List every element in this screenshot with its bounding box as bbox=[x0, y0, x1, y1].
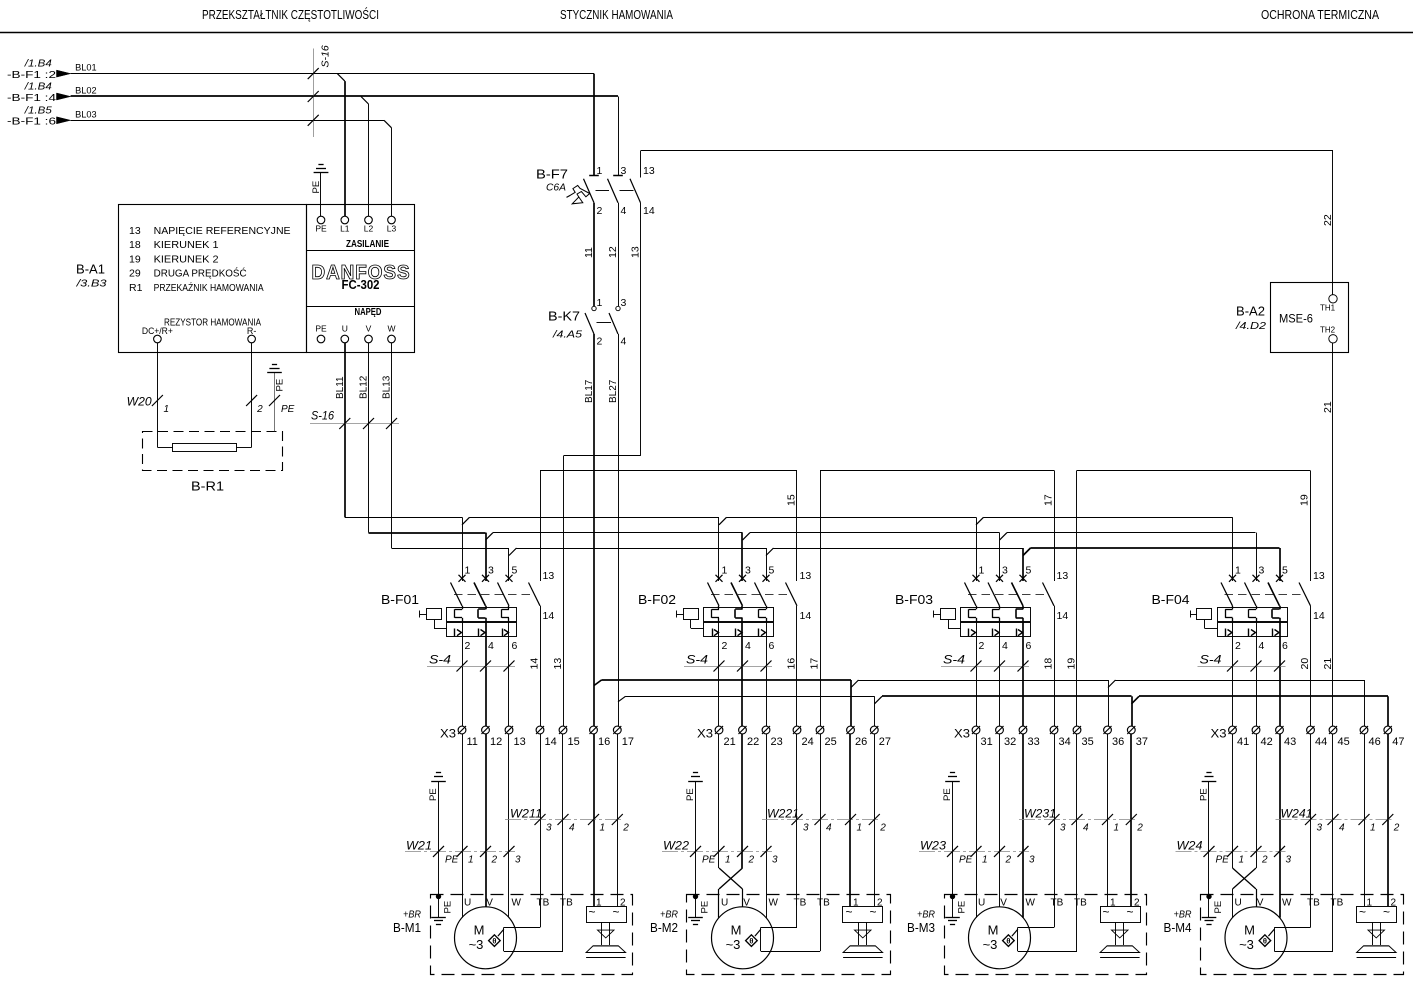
svg-text:OCHRONA TERMICZNA: OCHRONA TERMICZNA bbox=[1261, 7, 1379, 22]
svg-text:TB: TB bbox=[1307, 898, 1320, 909]
svg-text:~: ~ bbox=[845, 905, 852, 919]
svg-text:PE: PE bbox=[1213, 901, 1224, 914]
svg-text:15: 15 bbox=[568, 736, 580, 748]
svg-text:B-F03: B-F03 bbox=[895, 592, 933, 607]
svg-text:25: 25 bbox=[825, 736, 837, 748]
svg-text:TB: TB bbox=[1331, 898, 1344, 909]
svg-text:DC+/R+: DC+/R+ bbox=[142, 326, 173, 336]
svg-text:W221: W221 bbox=[767, 809, 799, 821]
svg-text:14: 14 bbox=[543, 610, 555, 622]
svg-text:41: 41 bbox=[1237, 736, 1249, 748]
svg-text:B-M1: B-M1 bbox=[393, 920, 421, 935]
svg-text:BL02: BL02 bbox=[75, 86, 97, 96]
svg-text:3: 3 bbox=[546, 823, 552, 834]
svg-text:TB: TB bbox=[560, 898, 573, 909]
svg-text:TB: TB bbox=[817, 898, 830, 909]
svg-text:θ: θ bbox=[1263, 937, 1267, 946]
svg-text:2: 2 bbox=[256, 404, 263, 415]
svg-text:23: 23 bbox=[771, 736, 783, 748]
svg-text:BL12: BL12 bbox=[359, 375, 370, 399]
svg-text:5: 5 bbox=[769, 565, 775, 577]
svg-text:17: 17 bbox=[1043, 494, 1055, 506]
svg-text:19: 19 bbox=[1299, 494, 1311, 506]
svg-text:~: ~ bbox=[1383, 905, 1390, 919]
svg-text:12: 12 bbox=[607, 246, 619, 258]
svg-text:1: 1 bbox=[857, 823, 863, 834]
svg-text:2: 2 bbox=[722, 640, 728, 652]
svg-text:U: U bbox=[342, 324, 348, 334]
svg-text:S-16: S-16 bbox=[320, 45, 332, 67]
svg-text:S-4: S-4 bbox=[1200, 655, 1222, 667]
svg-text:26: 26 bbox=[855, 736, 867, 748]
svg-text:~3: ~3 bbox=[983, 937, 998, 952]
svg-text:2: 2 bbox=[879, 823, 886, 834]
svg-text:C6A: C6A bbox=[546, 182, 566, 194]
svg-text:3: 3 bbox=[621, 165, 627, 177]
svg-text:1: 1 bbox=[1114, 823, 1120, 834]
svg-text:14: 14 bbox=[529, 658, 541, 670]
svg-text:PE: PE bbox=[942, 788, 953, 801]
svg-text:3: 3 bbox=[803, 823, 809, 834]
svg-text:ZASILANIE: ZASILANIE bbox=[346, 239, 389, 250]
svg-text:/4.A5: /4.A5 bbox=[552, 329, 582, 341]
svg-text:BL03: BL03 bbox=[75, 109, 97, 119]
svg-text:2: 2 bbox=[1136, 823, 1143, 834]
svg-text:4: 4 bbox=[621, 205, 627, 217]
svg-text:/1.B4: /1.B4 bbox=[24, 58, 52, 70]
svg-text:B-M2: B-M2 bbox=[650, 920, 678, 935]
svg-text:B-M4: B-M4 bbox=[1164, 920, 1192, 935]
svg-text:34: 34 bbox=[1059, 736, 1071, 748]
svg-text:W: W bbox=[512, 898, 522, 909]
svg-text:θ: θ bbox=[749, 937, 753, 946]
svg-text:BL27: BL27 bbox=[608, 379, 619, 403]
svg-text:1: 1 bbox=[1370, 823, 1376, 834]
svg-text:PE: PE bbox=[311, 181, 322, 194]
svg-text:3: 3 bbox=[1029, 855, 1035, 866]
svg-text:+BR: +BR bbox=[660, 909, 678, 921]
svg-text:4: 4 bbox=[1083, 823, 1089, 834]
svg-text:PE: PE bbox=[315, 224, 327, 234]
svg-text:1: 1 bbox=[468, 855, 474, 866]
svg-text:~: ~ bbox=[612, 905, 619, 919]
svg-text:4: 4 bbox=[621, 336, 627, 348]
svg-text:W21: W21 bbox=[406, 841, 432, 853]
svg-text:11: 11 bbox=[583, 247, 595, 258]
svg-text:PE: PE bbox=[957, 901, 968, 914]
svg-text:13: 13 bbox=[514, 736, 526, 748]
svg-text:+BR: +BR bbox=[917, 909, 935, 921]
svg-text:PE: PE bbox=[700, 901, 711, 914]
svg-text:42: 42 bbox=[1261, 736, 1273, 748]
svg-text:21: 21 bbox=[724, 736, 736, 748]
svg-text:V: V bbox=[366, 324, 372, 334]
svg-text:U: U bbox=[464, 898, 471, 909]
svg-text:21: 21 bbox=[1322, 658, 1334, 670]
svg-text:TB: TB bbox=[1051, 898, 1064, 909]
svg-text:U: U bbox=[978, 898, 985, 909]
svg-text:S-4: S-4 bbox=[686, 655, 708, 667]
svg-text:2: 2 bbox=[979, 640, 985, 652]
svg-text:/3.B3: /3.B3 bbox=[75, 277, 106, 289]
svg-text:PE: PE bbox=[281, 404, 295, 415]
svg-text:13: 13 bbox=[800, 570, 812, 582]
svg-text:14: 14 bbox=[643, 205, 655, 217]
svg-text:BL01: BL01 bbox=[75, 63, 97, 73]
svg-text:~: ~ bbox=[1102, 905, 1109, 919]
svg-text:29: 29 bbox=[129, 268, 141, 280]
svg-text:1: 1 bbox=[600, 823, 606, 834]
svg-text:W20: W20 bbox=[127, 397, 153, 409]
svg-text:6: 6 bbox=[1282, 640, 1288, 652]
svg-text:B-A1: B-A1 bbox=[76, 262, 105, 277]
svg-text:1: 1 bbox=[597, 165, 603, 177]
svg-text:TB: TB bbox=[794, 898, 807, 909]
svg-text:L3: L3 bbox=[387, 224, 397, 234]
svg-text:24: 24 bbox=[802, 736, 814, 748]
svg-text:B-F04: B-F04 bbox=[1152, 592, 1190, 607]
svg-text:W211: W211 bbox=[510, 809, 542, 821]
svg-text:19: 19 bbox=[1066, 658, 1078, 670]
svg-text:36: 36 bbox=[1112, 736, 1124, 748]
svg-text:20: 20 bbox=[1299, 658, 1311, 670]
svg-text:PE: PE bbox=[1198, 788, 1209, 801]
svg-text:22: 22 bbox=[747, 736, 759, 748]
svg-text:/1.B5: /1.B5 bbox=[24, 104, 52, 116]
svg-text:θ: θ bbox=[492, 937, 496, 946]
svg-text:~: ~ bbox=[588, 905, 595, 919]
svg-text:X3: X3 bbox=[440, 729, 456, 741]
svg-text:2: 2 bbox=[622, 823, 629, 834]
svg-text:47: 47 bbox=[1392, 736, 1404, 748]
svg-text:W: W bbox=[387, 324, 395, 334]
svg-text:-B-F1 :2: -B-F1 :2 bbox=[7, 70, 57, 81]
svg-text:B-F7: B-F7 bbox=[536, 167, 568, 182]
svg-text:32: 32 bbox=[1004, 736, 1016, 748]
svg-text:W: W bbox=[1282, 898, 1292, 909]
svg-text:16: 16 bbox=[598, 736, 610, 748]
svg-text:3: 3 bbox=[745, 565, 751, 577]
svg-text:PE: PE bbox=[685, 788, 696, 801]
svg-text:M: M bbox=[1244, 923, 1255, 938]
svg-text:33: 33 bbox=[1028, 736, 1040, 748]
svg-text:4: 4 bbox=[745, 640, 751, 652]
svg-text:5: 5 bbox=[1282, 565, 1288, 577]
svg-text:3: 3 bbox=[1286, 855, 1292, 866]
svg-text:PRZEKAŹNIK HAMOWANIA: PRZEKAŹNIK HAMOWANIA bbox=[154, 281, 264, 294]
svg-text:X3: X3 bbox=[697, 729, 713, 741]
svg-text:B-K7: B-K7 bbox=[548, 309, 580, 324]
svg-text:TH2: TH2 bbox=[1320, 326, 1336, 335]
svg-text:M: M bbox=[988, 923, 999, 938]
svg-text:46: 46 bbox=[1369, 736, 1381, 748]
svg-text:13: 13 bbox=[629, 246, 641, 258]
svg-text:~3: ~3 bbox=[469, 937, 484, 952]
svg-text:6: 6 bbox=[769, 640, 775, 652]
svg-text:3: 3 bbox=[772, 855, 778, 866]
svg-text:~3: ~3 bbox=[1239, 937, 1254, 952]
svg-text:13: 13 bbox=[1057, 570, 1069, 582]
svg-text:4: 4 bbox=[1002, 640, 1008, 652]
svg-text:6: 6 bbox=[512, 640, 518, 652]
svg-text:1: 1 bbox=[725, 855, 731, 866]
svg-text:TB: TB bbox=[537, 898, 550, 909]
svg-text:12: 12 bbox=[490, 736, 502, 748]
svg-text:θ: θ bbox=[1006, 937, 1010, 946]
svg-text:45: 45 bbox=[1338, 736, 1350, 748]
svg-text:4: 4 bbox=[1339, 823, 1345, 834]
svg-text:X3: X3 bbox=[954, 729, 970, 741]
svg-text:TB: TB bbox=[1074, 898, 1087, 909]
svg-text:PE: PE bbox=[443, 901, 454, 914]
svg-text:M: M bbox=[474, 923, 485, 938]
svg-text:BL11: BL11 bbox=[335, 376, 346, 399]
svg-text:/4.D2: /4.D2 bbox=[1235, 320, 1266, 332]
svg-text:~: ~ bbox=[869, 905, 876, 919]
svg-text:~: ~ bbox=[1359, 905, 1366, 919]
svg-text:19: 19 bbox=[129, 254, 141, 266]
svg-text:BL13: BL13 bbox=[382, 375, 393, 399]
svg-text:PE: PE bbox=[428, 788, 439, 801]
svg-text:B-F02: B-F02 bbox=[638, 592, 676, 607]
svg-text:1: 1 bbox=[979, 565, 985, 577]
svg-text:1: 1 bbox=[722, 565, 728, 577]
svg-text:+BR: +BR bbox=[403, 909, 421, 921]
svg-text:3: 3 bbox=[488, 565, 494, 577]
svg-text:U: U bbox=[1235, 898, 1242, 909]
svg-text:-B-F1 :6: -B-F1 :6 bbox=[7, 117, 57, 128]
svg-text:W231: W231 bbox=[1024, 809, 1056, 821]
svg-text:KIERUNEK 1: KIERUNEK 1 bbox=[154, 239, 219, 251]
svg-text:4: 4 bbox=[488, 640, 494, 652]
svg-text:22: 22 bbox=[1322, 214, 1334, 226]
svg-text:S-4: S-4 bbox=[429, 655, 451, 667]
svg-text:6: 6 bbox=[1026, 640, 1032, 652]
svg-text:~: ~ bbox=[1126, 905, 1133, 919]
svg-text:43: 43 bbox=[1284, 736, 1296, 748]
svg-text:R1: R1 bbox=[129, 282, 143, 294]
svg-text:/1.B4: /1.B4 bbox=[24, 81, 52, 93]
svg-text:13: 13 bbox=[643, 165, 655, 177]
svg-text:17: 17 bbox=[809, 658, 821, 670]
svg-text:2: 2 bbox=[1261, 855, 1268, 866]
svg-text:18: 18 bbox=[1043, 658, 1055, 670]
svg-text:S-4: S-4 bbox=[943, 655, 965, 667]
svg-text:27: 27 bbox=[879, 736, 891, 748]
svg-text:L2: L2 bbox=[364, 224, 374, 234]
svg-text:3: 3 bbox=[1060, 823, 1066, 834]
svg-text:W241: W241 bbox=[1281, 809, 1313, 821]
svg-text:5: 5 bbox=[512, 565, 518, 577]
svg-text:4: 4 bbox=[826, 823, 832, 834]
svg-text:35: 35 bbox=[1082, 736, 1094, 748]
svg-text:U: U bbox=[721, 898, 728, 909]
svg-text:13: 13 bbox=[552, 658, 564, 670]
svg-text:44: 44 bbox=[1315, 736, 1327, 748]
svg-text:2: 2 bbox=[1005, 855, 1012, 866]
svg-text:1: 1 bbox=[982, 855, 988, 866]
svg-text:14: 14 bbox=[800, 610, 812, 622]
svg-text:15: 15 bbox=[786, 494, 798, 506]
svg-text:1: 1 bbox=[1235, 565, 1241, 577]
svg-text:2: 2 bbox=[1393, 823, 1400, 834]
svg-text:STYCZNIK HAMOWANIA: STYCZNIK HAMOWANIA bbox=[560, 7, 673, 22]
svg-text:11: 11 bbox=[467, 736, 478, 748]
svg-text:-B-F1 :4: -B-F1 :4 bbox=[7, 93, 57, 104]
svg-text:W24: W24 bbox=[1177, 841, 1203, 853]
svg-text:X3: X3 bbox=[1211, 729, 1227, 741]
svg-text:21: 21 bbox=[1322, 401, 1334, 413]
svg-text:W22: W22 bbox=[663, 841, 690, 853]
svg-text:BL17: BL17 bbox=[584, 379, 595, 403]
svg-text:3: 3 bbox=[1002, 565, 1008, 577]
svg-text:PRZEKSZTAŁTNIK CZĘSTOTLIWOŚCI: PRZEKSZTAŁTNIK CZĘSTOTLIWOŚCI bbox=[202, 7, 379, 22]
svg-text:W23: W23 bbox=[920, 841, 947, 853]
svg-text:5: 5 bbox=[1026, 565, 1032, 577]
svg-text:14: 14 bbox=[1057, 610, 1069, 622]
svg-text:16: 16 bbox=[786, 658, 798, 670]
svg-text:PE: PE bbox=[315, 324, 327, 334]
svg-text:2: 2 bbox=[597, 336, 603, 348]
svg-text:S-16: S-16 bbox=[311, 411, 335, 423]
svg-text:R-: R- bbox=[247, 326, 257, 336]
svg-text:W: W bbox=[1026, 898, 1036, 909]
svg-text:37: 37 bbox=[1136, 736, 1148, 748]
svg-text:2: 2 bbox=[491, 855, 498, 866]
svg-text:M: M bbox=[731, 923, 742, 938]
svg-text:14: 14 bbox=[545, 736, 557, 748]
svg-text:3: 3 bbox=[621, 297, 627, 309]
svg-text:DRUGA PRĘDKOŚĆ: DRUGA PRĘDKOŚĆ bbox=[154, 267, 247, 280]
svg-text:MSE-6: MSE-6 bbox=[1279, 312, 1313, 326]
svg-text:FC-302: FC-302 bbox=[342, 278, 380, 292]
svg-text:2: 2 bbox=[748, 855, 755, 866]
svg-text:13: 13 bbox=[129, 225, 141, 237]
svg-text:PE: PE bbox=[275, 379, 286, 392]
svg-text:1: 1 bbox=[1239, 855, 1245, 866]
svg-text:B-M3: B-M3 bbox=[907, 920, 935, 935]
svg-text:3: 3 bbox=[515, 855, 521, 866]
svg-text:4: 4 bbox=[1259, 640, 1265, 652]
svg-text:13: 13 bbox=[1313, 570, 1325, 582]
svg-text:13: 13 bbox=[543, 570, 555, 582]
svg-text:2: 2 bbox=[1235, 640, 1241, 652]
svg-text:14: 14 bbox=[1313, 610, 1325, 622]
svg-text:NAPIĘCIE REFERENCYJNE: NAPIĘCIE REFERENCYJNE bbox=[154, 225, 291, 237]
svg-text:L1: L1 bbox=[340, 224, 350, 234]
svg-text:NAPĘD: NAPĘD bbox=[355, 307, 382, 318]
svg-text:1: 1 bbox=[465, 565, 471, 577]
svg-text:B-R1: B-R1 bbox=[191, 480, 224, 494]
svg-text:KIERUNEK 2: KIERUNEK 2 bbox=[154, 254, 219, 266]
svg-text:4: 4 bbox=[569, 823, 575, 834]
svg-text:2: 2 bbox=[597, 205, 603, 217]
svg-text:B-F01: B-F01 bbox=[381, 592, 419, 607]
svg-text:B-A2: B-A2 bbox=[1236, 304, 1265, 319]
svg-text:~3: ~3 bbox=[726, 937, 741, 952]
svg-text:3: 3 bbox=[1259, 565, 1265, 577]
svg-text:TH1: TH1 bbox=[1320, 304, 1336, 313]
svg-text:3: 3 bbox=[1317, 823, 1323, 834]
svg-text:1: 1 bbox=[597, 297, 603, 309]
svg-text:2: 2 bbox=[465, 640, 471, 652]
svg-text:+BR: +BR bbox=[1174, 909, 1192, 921]
svg-text:31: 31 bbox=[981, 736, 993, 748]
svg-text:1: 1 bbox=[164, 404, 170, 415]
svg-text:17: 17 bbox=[622, 736, 634, 748]
svg-text:W: W bbox=[769, 898, 779, 909]
svg-text:18: 18 bbox=[129, 239, 141, 251]
